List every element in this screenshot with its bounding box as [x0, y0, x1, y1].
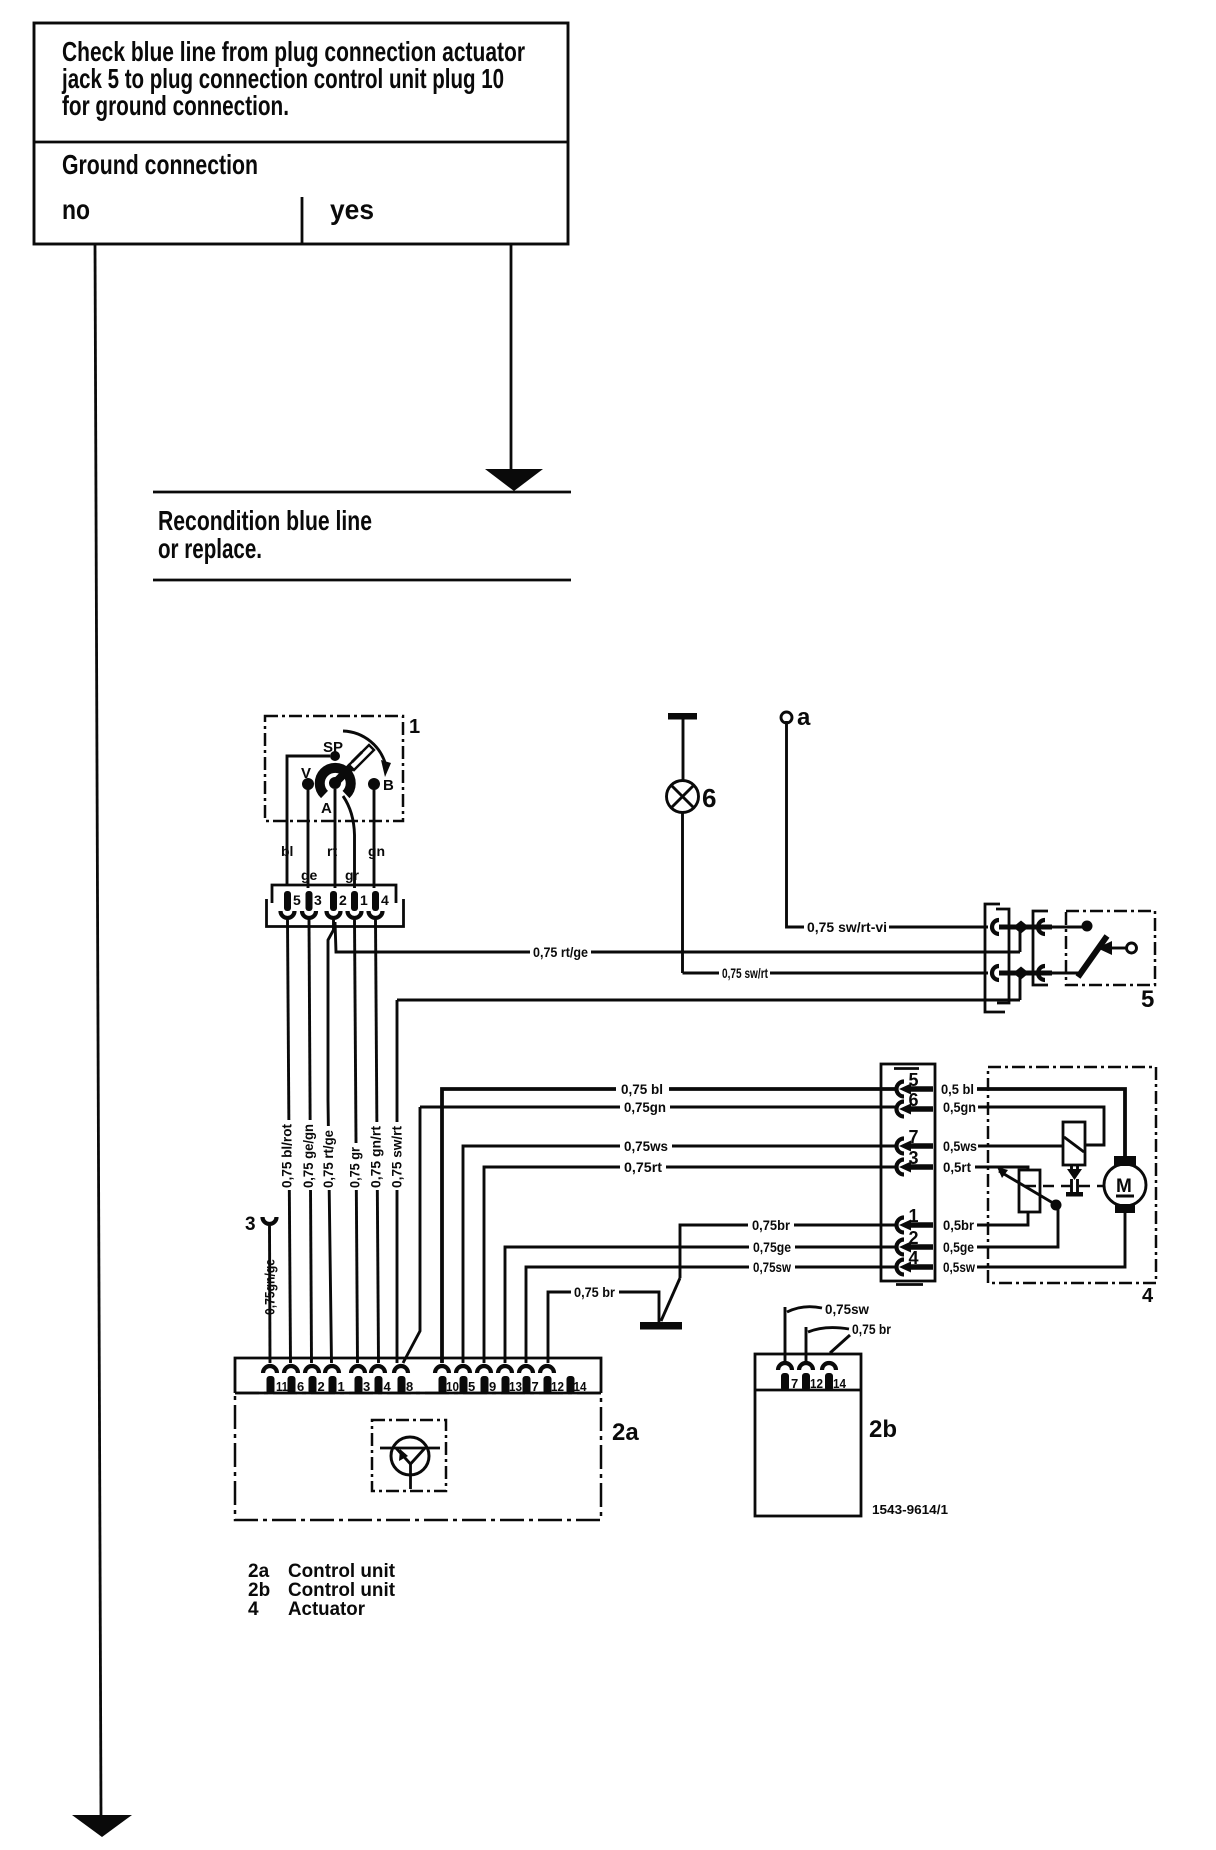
svg-text:0,5 bl: 0,5 bl: [941, 1081, 974, 1097]
svg-text:6: 6: [297, 1379, 304, 1394]
svg-text:1: 1: [909, 1206, 919, 1226]
svg-text:0,75 bl/rot: 0,75 bl/rot: [279, 1124, 295, 1188]
svg-text:5: 5: [1141, 986, 1154, 1013]
svg-text:0,75 rt/ge: 0,75 rt/ge: [533, 944, 588, 960]
svg-text:no: no: [62, 194, 90, 225]
svg-text:7: 7: [532, 1379, 539, 1394]
svg-text:0,75 sw/rt-vi: 0,75 sw/rt-vi: [807, 919, 887, 935]
svg-text:0,75 gn/rt: 0,75 gn/rt: [368, 1126, 384, 1188]
svg-text:7: 7: [909, 1127, 919, 1147]
svg-text:gr: gr: [345, 867, 360, 883]
svg-text:4: 4: [1142, 1285, 1154, 1307]
svg-text:M: M: [1116, 1176, 1132, 1197]
svg-text:5: 5: [468, 1379, 475, 1394]
svg-text:6: 6: [909, 1090, 919, 1110]
svg-text:0,75 sw/rt: 0,75 sw/rt: [722, 965, 768, 981]
svg-text:B: B: [383, 777, 394, 794]
svg-text:5: 5: [293, 892, 301, 908]
svg-text:2: 2: [318, 1379, 325, 1394]
svg-text:4: 4: [384, 1379, 392, 1394]
svg-text:2a: 2a: [248, 1561, 270, 1582]
svg-text:14: 14: [833, 1376, 847, 1391]
svg-text:8: 8: [406, 1379, 413, 1394]
svg-text:11: 11: [276, 1379, 288, 1394]
svg-text:0,75 ge/gn: 0,75 ge/gn: [300, 1124, 316, 1188]
svg-text:or replace.: or replace.: [158, 533, 262, 564]
svg-text:0,75 br: 0,75 br: [852, 1321, 891, 1337]
svg-text:3: 3: [363, 1379, 370, 1394]
svg-text:Actuator: Actuator: [288, 1599, 366, 1620]
svg-text:0,5ge: 0,5ge: [943, 1239, 974, 1255]
svg-text:0,75gn/ge: 0,75gn/ge: [262, 1259, 278, 1315]
svg-text:1543-9614/1: 1543-9614/1: [872, 1502, 948, 1517]
svg-text:0,75 rt/ge: 0,75 rt/ge: [320, 1130, 336, 1188]
svg-text:0,5ws: 0,5ws: [943, 1138, 977, 1154]
svg-text:yes: yes: [330, 194, 374, 225]
svg-text:0,5rt: 0,5rt: [943, 1159, 971, 1175]
svg-text:0,5sw: 0,5sw: [943, 1259, 975, 1275]
svg-text:Recondition blue line: Recondition blue line: [158, 505, 372, 536]
svg-text:1: 1: [338, 1379, 345, 1394]
svg-text:0,75 bl: 0,75 bl: [621, 1081, 663, 1097]
svg-text:0,75 br: 0,75 br: [574, 1284, 615, 1300]
svg-text:14: 14: [574, 1379, 588, 1394]
svg-text:0,5gn: 0,5gn: [943, 1099, 976, 1115]
svg-text:12: 12: [551, 1379, 564, 1394]
svg-text:2a: 2a: [612, 1419, 639, 1446]
svg-text:0,75 sw/rt: 0,75 sw/rt: [389, 1126, 405, 1188]
svg-text:0,5br: 0,5br: [943, 1217, 975, 1233]
svg-text:7: 7: [791, 1376, 798, 1391]
svg-text:ge: ge: [301, 867, 318, 883]
svg-text:for ground connection.: for ground connection.: [62, 90, 289, 121]
svg-text:10: 10: [446, 1379, 459, 1394]
svg-text:1: 1: [409, 716, 420, 738]
svg-text:3: 3: [314, 892, 322, 908]
svg-text:0,75 gr: 0,75 gr: [347, 1147, 363, 1188]
svg-text:0,75sw: 0,75sw: [825, 1301, 869, 1317]
svg-text:4: 4: [909, 1248, 919, 1268]
svg-text:3: 3: [245, 1214, 256, 1235]
svg-text:2: 2: [909, 1228, 919, 1248]
svg-text:0,75br: 0,75br: [752, 1217, 791, 1233]
svg-text:0,75ws: 0,75ws: [624, 1138, 668, 1154]
svg-text:1: 1: [360, 892, 368, 908]
svg-text:A: A: [321, 800, 332, 817]
svg-text:12: 12: [810, 1376, 823, 1391]
svg-text:2: 2: [339, 892, 347, 908]
svg-text:2b: 2b: [248, 1580, 270, 1601]
svg-text:bl: bl: [281, 843, 293, 859]
svg-text:a: a: [797, 704, 811, 731]
svg-text:4: 4: [248, 1599, 259, 1620]
svg-text:3: 3: [909, 1148, 919, 1168]
svg-text:Control unit: Control unit: [288, 1561, 396, 1582]
svg-text:Control unit: Control unit: [288, 1580, 396, 1601]
svg-text:0,75rt: 0,75rt: [624, 1159, 662, 1175]
svg-text:Ground connection: Ground connection: [62, 149, 258, 180]
svg-text:5: 5: [909, 1070, 919, 1090]
svg-text:2b: 2b: [869, 1416, 897, 1443]
svg-text:0,75sw: 0,75sw: [753, 1259, 791, 1275]
svg-text:gn: gn: [368, 843, 385, 859]
svg-text:0,75ge: 0,75ge: [753, 1239, 791, 1255]
svg-text:4: 4: [381, 892, 389, 908]
svg-text:rt: rt: [327, 843, 337, 859]
svg-text:0,75gn: 0,75gn: [624, 1099, 666, 1115]
svg-text:13: 13: [509, 1379, 522, 1394]
svg-text:6: 6: [702, 783, 716, 813]
svg-text:9: 9: [489, 1379, 496, 1394]
